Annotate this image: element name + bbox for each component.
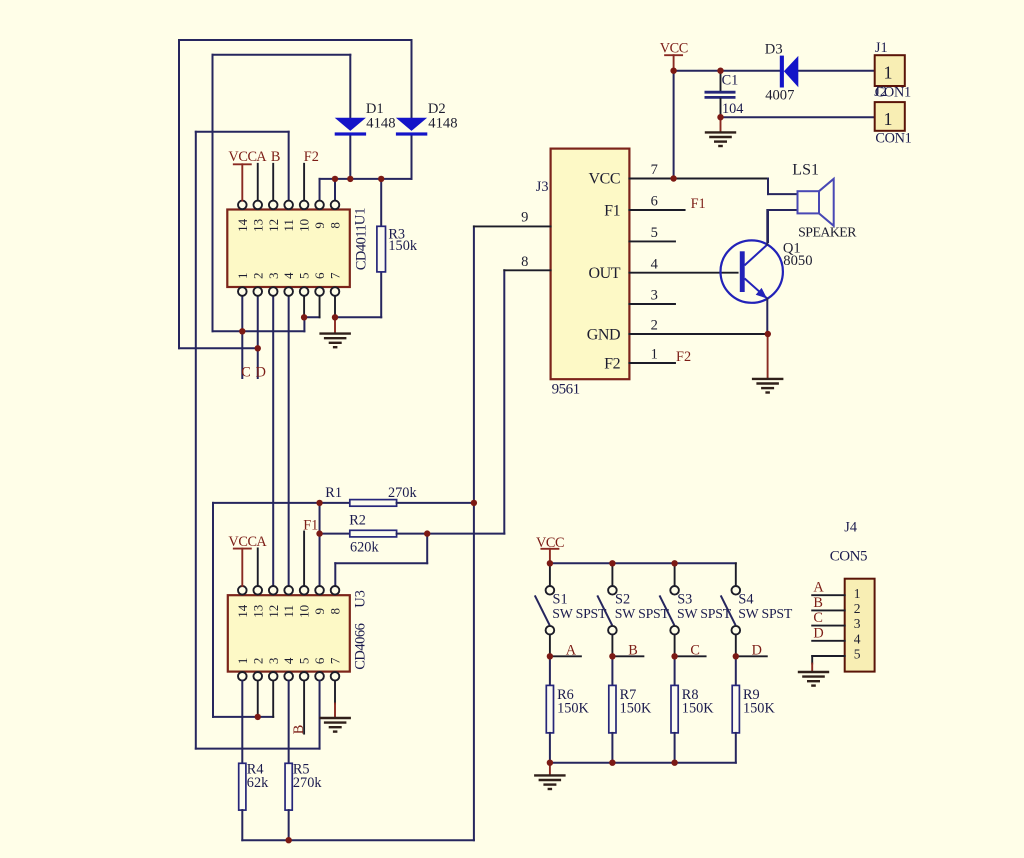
U1 pin 10 stub (net F2) <box>303 164 305 201</box>
wire net C to U1 pin 1/5 <box>213 330 305 332</box>
svg-text:B: B <box>291 725 307 735</box>
wire U1 pin11 to U3 pin6 (top) <box>196 131 289 133</box>
wire R3 top lead <box>380 179 382 226</box>
svg-text:62k: 62k <box>247 775 269 791</box>
ground at U1 pin 7 <box>319 334 351 348</box>
svg-text:14: 14 <box>235 218 250 232</box>
svg-text:U1: U1 <box>353 207 369 225</box>
ground at Q1 <box>752 379 784 393</box>
U1 pin 7 stub <box>334 296 336 318</box>
svg-text:C1: C1 <box>722 72 739 88</box>
svg-text:1: 1 <box>884 109 893 129</box>
IC J3 9561 body <box>551 149 630 380</box>
wire D3 to J1 <box>798 70 874 72</box>
wire S3 to R8 <box>674 656 676 685</box>
svg-text:1: 1 <box>884 63 893 83</box>
junction R8 bottom <box>671 760 677 766</box>
ground lead U1 pin7 <box>334 317 336 333</box>
J4 pin 5 line <box>812 655 845 657</box>
junction U3 pin2/pin3 <box>255 714 261 720</box>
svg-text:B: B <box>628 642 638 658</box>
svg-text:J2: J2 <box>874 84 887 100</box>
U3 pin 9 circle <box>315 586 324 595</box>
wire D1 anode lead <box>349 55 351 118</box>
VCC power symbol at switches <box>536 535 564 551</box>
wire S4 to R9 <box>735 656 737 685</box>
svg-text:13: 13 <box>250 219 265 232</box>
svg-text:12: 12 <box>266 219 281 232</box>
junction R5 bottom <box>285 837 291 843</box>
wire R2 left <box>320 533 350 535</box>
wire net D (left vertical) <box>178 40 180 348</box>
svg-text:150K: 150K <box>682 700 714 716</box>
wire riser to pin5 junction <box>303 317 305 331</box>
wire into U1 pin 11 <box>288 132 290 201</box>
svg-text:4148: 4148 <box>428 116 457 132</box>
wire U1 pin1 to net C stub <box>241 296 243 378</box>
U1 pin 11 circle <box>284 201 293 210</box>
svg-text:VCC: VCC <box>660 41 688 57</box>
J3 pin 1 line <box>629 362 675 364</box>
svg-text:SW SPST: SW SPST <box>615 606 670 621</box>
svg-text:F1: F1 <box>691 196 706 212</box>
wire down to U3 pin2/3 <box>212 503 214 717</box>
svg-text:6: 6 <box>312 657 327 664</box>
U1 pin 6 circle <box>315 287 324 296</box>
svg-text:150K: 150K <box>557 700 589 716</box>
wire R3 to U1 pin7 <box>335 316 381 318</box>
svg-text:1: 1 <box>651 347 658 363</box>
junction S3 top <box>671 560 677 566</box>
junction R3 top <box>378 176 384 182</box>
U1 pin 12 circle <box>269 201 278 210</box>
wire C1 to J1 second pin <box>721 116 875 118</box>
svg-text:14: 14 <box>235 604 250 618</box>
U3 pin 1 circle <box>238 672 247 681</box>
svg-text:CD4066: CD4066 <box>353 623 369 669</box>
U1 pin 12 stub (net B) <box>272 164 274 201</box>
wire bottom bus <box>242 839 474 841</box>
ground lead at C1 <box>720 117 722 132</box>
resistor R4 <box>239 763 246 810</box>
svg-text:A: A <box>256 149 267 165</box>
svg-text:2: 2 <box>651 318 658 334</box>
C1 bottom lead <box>720 99 722 117</box>
wire U1 pin4 to U3 pin11 <box>288 296 290 586</box>
svg-text:F1: F1 <box>604 202 620 219</box>
svg-text:13: 13 <box>250 605 265 618</box>
U3 pin 3 circle <box>269 672 278 681</box>
svg-text:6: 6 <box>651 194 658 210</box>
wire R7 bottom <box>611 733 613 763</box>
U1 pin 9 circle <box>315 201 324 210</box>
svg-text:8: 8 <box>328 608 343 615</box>
U1 pin 4 circle <box>284 287 293 296</box>
wire switch bottom bus <box>550 762 736 764</box>
junction U1 pin2 / net D <box>255 345 261 351</box>
svg-text:11: 11 <box>281 219 296 232</box>
svg-text:SW SPST: SW SPST <box>552 606 607 621</box>
switch S3 SW SPST <box>660 586 679 635</box>
junction C1 top <box>717 68 723 74</box>
svg-text:F2: F2 <box>676 349 691 365</box>
wire into U3 pin 8 <box>334 563 336 586</box>
svg-text:8: 8 <box>328 222 343 229</box>
U1 pin 1 circle <box>238 287 247 296</box>
junction VCC switch bus <box>547 560 553 566</box>
wire U3 pin6 down <box>319 681 321 749</box>
J3 pin 8 line <box>504 269 550 271</box>
U1 pin 13 stub (net A) <box>257 164 259 201</box>
connector J2 CON1 box <box>875 102 905 131</box>
junction R1 right / J3 pin9 net <box>471 500 477 506</box>
U3 pin 7 stub <box>334 681 336 704</box>
svg-text:620k: 620k <box>350 539 379 555</box>
U1 pin 3 circle <box>269 287 278 296</box>
svg-text:5: 5 <box>297 272 312 279</box>
U3 pin 7 circle <box>331 672 340 681</box>
junction S2 net B <box>609 653 615 659</box>
svg-text:C: C <box>813 610 823 626</box>
junction S1 net A <box>547 653 553 659</box>
junction S3 net C <box>671 653 677 659</box>
U3 pin 6 circle <box>315 672 324 681</box>
U3 pin 10 circle <box>300 586 309 595</box>
svg-text:270k: 270k <box>293 775 322 791</box>
IC U3 CD4066 body <box>228 595 350 671</box>
wire R1/R2 to U3 pin 9 <box>319 503 321 586</box>
svg-text:3: 3 <box>651 288 658 304</box>
svg-text:J3: J3 <box>536 179 549 195</box>
J4 pin 4 line <box>812 640 845 642</box>
ground at J4 <box>798 672 829 686</box>
wire D1 cathode lead <box>349 136 351 179</box>
S2 bottom lead <box>611 635 613 657</box>
wire emitter down <box>766 299 768 334</box>
U1 pin 8 circle <box>331 201 340 210</box>
svg-text:5: 5 <box>297 658 312 665</box>
svg-text:SPEAKER: SPEAKER <box>798 225 857 240</box>
net stub B <box>612 655 643 657</box>
U1 pin 14 circle <box>238 201 247 210</box>
svg-text:VCC: VCC <box>588 171 620 188</box>
wire R5 bottom <box>288 810 290 840</box>
wire diode cathode bus <box>320 178 412 180</box>
wire long left vertical <box>195 132 197 749</box>
svg-text:D: D <box>256 364 266 380</box>
J3 pin 7 line / wire to speaker <box>629 178 768 180</box>
U3 pin 13 circle <box>253 586 262 595</box>
ground lead switches <box>549 763 551 776</box>
S1 top lead <box>549 563 551 586</box>
wire collector up <box>766 210 768 245</box>
resistor R5 <box>285 763 292 810</box>
wire R6 bottom <box>549 733 551 763</box>
S3 bottom lead <box>674 635 676 657</box>
wire pin5-pin6 <box>304 316 319 318</box>
svg-text:4: 4 <box>854 631 861 646</box>
resistor R1 <box>350 500 397 507</box>
J3 pin 3 line <box>629 303 675 305</box>
svg-text:6: 6 <box>312 272 327 279</box>
VCC lead switches <box>549 549 551 564</box>
svg-text:9: 9 <box>521 210 528 226</box>
wire R8 bottom <box>674 733 676 763</box>
junction R6 bottom / ground <box>547 760 553 766</box>
junction VCC top <box>670 68 676 74</box>
junction U1 pin1 / net C <box>239 328 245 334</box>
resistor R2 <box>350 530 397 537</box>
svg-text:270k: 270k <box>388 485 417 501</box>
svg-text:4148: 4148 <box>366 116 395 132</box>
IC U1 CD4011 body <box>227 210 349 288</box>
svg-text:B: B <box>813 595 823 611</box>
svg-text:9: 9 <box>312 222 327 229</box>
svg-text:2: 2 <box>250 658 265 665</box>
svg-text:F2: F2 <box>304 149 319 165</box>
S4 bottom lead <box>735 635 737 657</box>
wire switch top bus <box>550 562 736 564</box>
svg-text:D1: D1 <box>366 101 384 117</box>
svg-text:CD4011: CD4011 <box>354 224 370 270</box>
J4 pin5 down <box>811 656 813 664</box>
junction S2 top <box>609 560 615 566</box>
svg-text:2: 2 <box>854 601 861 616</box>
svg-text:4: 4 <box>281 272 296 279</box>
svg-text:9561: 9561 <box>552 382 580 398</box>
junction Q1 emitter / J3 pin2 <box>765 331 771 337</box>
svg-text:A: A <box>813 580 824 596</box>
svg-text:2: 2 <box>250 272 265 279</box>
U3 pin 4 circle <box>284 672 293 681</box>
svg-text:4: 4 <box>281 657 296 664</box>
U3 pin 11 circle <box>284 586 293 595</box>
svg-text:150K: 150K <box>743 700 775 716</box>
switch S2 SW SPST <box>597 586 616 635</box>
svg-text:GND: GND <box>587 326 620 343</box>
svg-text:5: 5 <box>854 647 861 662</box>
junction U1 pin5 <box>301 314 307 320</box>
wire net D to U1 pin 2 <box>179 347 258 349</box>
svg-text:150K: 150K <box>620 700 652 716</box>
U3 pin 3 stub down <box>272 681 274 717</box>
svg-text:3: 3 <box>266 272 281 279</box>
diode D1 <box>335 118 366 136</box>
wire R4 bottom <box>241 810 243 840</box>
ground at U3 pin 7 <box>319 718 351 732</box>
wire R9 bottom <box>735 733 737 763</box>
svg-text:F1: F1 <box>303 517 318 533</box>
svg-text:J4: J4 <box>844 519 857 535</box>
svg-text:10: 10 <box>297 219 312 232</box>
svg-text:9: 9 <box>312 608 327 615</box>
resistor R9 <box>732 685 739 733</box>
wire R2 tap down <box>426 534 428 564</box>
ground lead at Q1 emitter <box>767 334 769 379</box>
wire U1 pin2 to net D stub <box>257 296 259 378</box>
U3 pin 12 circle <box>269 586 278 595</box>
transistor Q1 8050 <box>721 240 783 302</box>
ground lead U3 pin 7 <box>334 704 336 718</box>
wire J3 pin9 long vertical <box>473 226 475 840</box>
J3 pin 9 line <box>474 225 551 227</box>
net stub C <box>675 655 706 657</box>
wire VCC to D3 <box>674 70 780 72</box>
resistor R6 <box>546 685 553 733</box>
svg-text:D: D <box>752 642 762 658</box>
svg-text:150k: 150k <box>388 238 417 254</box>
svg-text:D2: D2 <box>428 101 446 117</box>
resistor R7 <box>609 685 616 733</box>
wire U1 pin3 to U3 pin12 <box>272 296 274 586</box>
svg-text:R2: R2 <box>349 512 366 528</box>
switch S4 SW SPST <box>721 586 740 635</box>
J3 pin 5 line <box>629 240 675 242</box>
J4 pin 1 line <box>812 594 845 596</box>
wire into U3 pin 6 <box>196 748 320 750</box>
junction R7 bottom <box>609 760 615 766</box>
ground lead at J4 <box>811 664 813 672</box>
wire U3 pin4 to R5 <box>288 681 290 764</box>
svg-text:C: C <box>241 364 251 380</box>
connector J4 CON5 box <box>845 579 875 672</box>
U3 pin 14 circle <box>238 586 247 595</box>
junction R2 right tap <box>424 530 430 536</box>
svg-text:LS1: LS1 <box>792 162 819 179</box>
U3 pin 5 stub (net B) <box>303 681 305 734</box>
capacitor C1 plates <box>705 92 736 97</box>
U1 pin 6 stub <box>319 296 321 318</box>
svg-text:VCC: VCC <box>228 149 256 165</box>
svg-text:8: 8 <box>521 254 528 270</box>
VCC lead <box>673 55 675 70</box>
J3 pin 2 line to Q1 emitter <box>629 333 767 335</box>
junction U1 pin8 / cathode bus <box>332 176 338 182</box>
svg-text:D: D <box>813 626 823 642</box>
wire to U3 pin 8 <box>335 562 427 564</box>
wire to U3 pin3 <box>213 716 273 718</box>
svg-text:SW SPST: SW SPST <box>677 606 732 621</box>
wire net C (left vertical) <box>212 55 214 332</box>
ground at switches <box>534 775 566 789</box>
J4 pin 2 line <box>812 609 845 611</box>
wire speaker bottom terminal <box>768 209 798 211</box>
junction S4 net D <box>733 653 739 659</box>
svg-text:J1: J1 <box>875 40 888 56</box>
wire R2 right <box>397 533 505 535</box>
wire net D (top horizontal) <box>179 39 412 41</box>
svg-text:10: 10 <box>297 605 312 618</box>
svg-text:7: 7 <box>328 657 343 664</box>
wire to speaker top <box>767 179 769 195</box>
resistor R8 <box>671 685 678 733</box>
net stub D <box>736 655 767 657</box>
svg-text:CON1: CON1 <box>875 131 911 147</box>
wire S2 to R7 <box>611 656 613 685</box>
wire VCC down to J3 pin 7 <box>673 71 675 179</box>
diode D3 4007 <box>780 56 799 88</box>
resistor R3 <box>377 226 386 272</box>
wire U3 pin1 to R4 <box>241 681 243 764</box>
VCC lead to U1 pin 14 <box>241 164 243 200</box>
U3 pin 10 stub (net F1) <box>303 532 305 587</box>
wire D2 cathode lead <box>411 136 413 179</box>
junction R2 left <box>316 530 322 536</box>
wire into U1 pin 8 <box>334 179 336 201</box>
U1 pin 7 circle <box>331 287 340 296</box>
J3 pin 4 line to Q1 base <box>629 272 737 274</box>
svg-text:F2: F2 <box>604 355 620 372</box>
connector J1 CON1 box <box>875 55 905 86</box>
net stub A <box>550 655 581 657</box>
junction U1 pin7 / ground <box>332 314 338 320</box>
C1 top lead <box>720 71 722 91</box>
svg-text:D3: D3 <box>765 41 783 57</box>
U3 pin 13 stub (net A) <box>257 548 259 586</box>
svg-text:1: 1 <box>235 658 250 665</box>
junction VCC at J3 pin7 <box>670 175 676 181</box>
speaker LS1 symbol <box>798 179 834 226</box>
U3 pin 2 circle <box>253 672 262 681</box>
svg-text:12: 12 <box>266 605 281 618</box>
svg-text:U3: U3 <box>353 590 369 608</box>
VCC power symbol at U3 pin 14 <box>228 534 256 550</box>
VCC power symbol top right <box>660 41 688 57</box>
U1 pin 13 circle <box>253 201 262 210</box>
wire R1 left <box>213 502 350 504</box>
J4 pin 3 line <box>812 625 845 627</box>
U1 pin 5 circle <box>300 287 309 296</box>
wire S1 to R6 <box>549 656 551 685</box>
svg-text:OUT: OUT <box>589 265 621 282</box>
U3 pin 8 circle <box>331 586 340 595</box>
wire speaker top terminal <box>768 193 798 195</box>
svg-text:R1: R1 <box>325 485 342 501</box>
S3 top lead <box>674 563 676 586</box>
ground at C1 <box>705 132 736 146</box>
svg-text:A: A <box>566 642 577 658</box>
junction C1 bottom <box>717 114 723 120</box>
svg-text:1: 1 <box>235 272 250 279</box>
wire J3 pin8 vertical <box>503 270 505 533</box>
U1 pin 10 circle <box>300 201 309 210</box>
svg-text:4: 4 <box>651 256 659 272</box>
svg-text:5: 5 <box>651 225 658 241</box>
wire D2 anode lead <box>411 40 413 118</box>
svg-text:4007: 4007 <box>765 87 794 103</box>
S1 bottom lead <box>549 635 551 657</box>
junction D1 cathode <box>347 176 353 182</box>
svg-text:8050: 8050 <box>783 253 812 269</box>
svg-text:1: 1 <box>854 586 861 601</box>
wire into U1 pin 9 <box>319 179 321 201</box>
S2 top lead <box>611 563 613 586</box>
switch S1 SW SPST <box>535 586 554 635</box>
svg-text:3: 3 <box>266 658 281 665</box>
svg-text:7: 7 <box>328 272 343 279</box>
svg-text:SW SPST: SW SPST <box>738 606 793 621</box>
wire speaker to Q1 collector <box>767 210 769 242</box>
VCC lead to U3 pin 14 <box>241 549 243 586</box>
U3 pin 5 circle <box>300 672 309 681</box>
svg-text:3: 3 <box>854 616 861 631</box>
J3 pin 6 line <box>629 209 684 211</box>
svg-text:C: C <box>690 642 700 658</box>
S4 top lead <box>735 563 737 586</box>
svg-text:104: 104 <box>722 101 743 117</box>
svg-text:7: 7 <box>651 162 658 178</box>
U1 pin 2 circle <box>253 287 262 296</box>
